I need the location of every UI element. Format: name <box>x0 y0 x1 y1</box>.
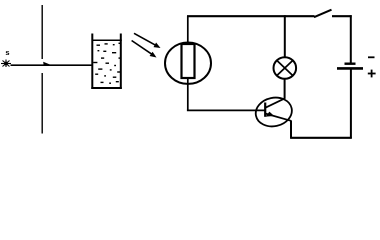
svg-text:s: s <box>5 48 9 57</box>
